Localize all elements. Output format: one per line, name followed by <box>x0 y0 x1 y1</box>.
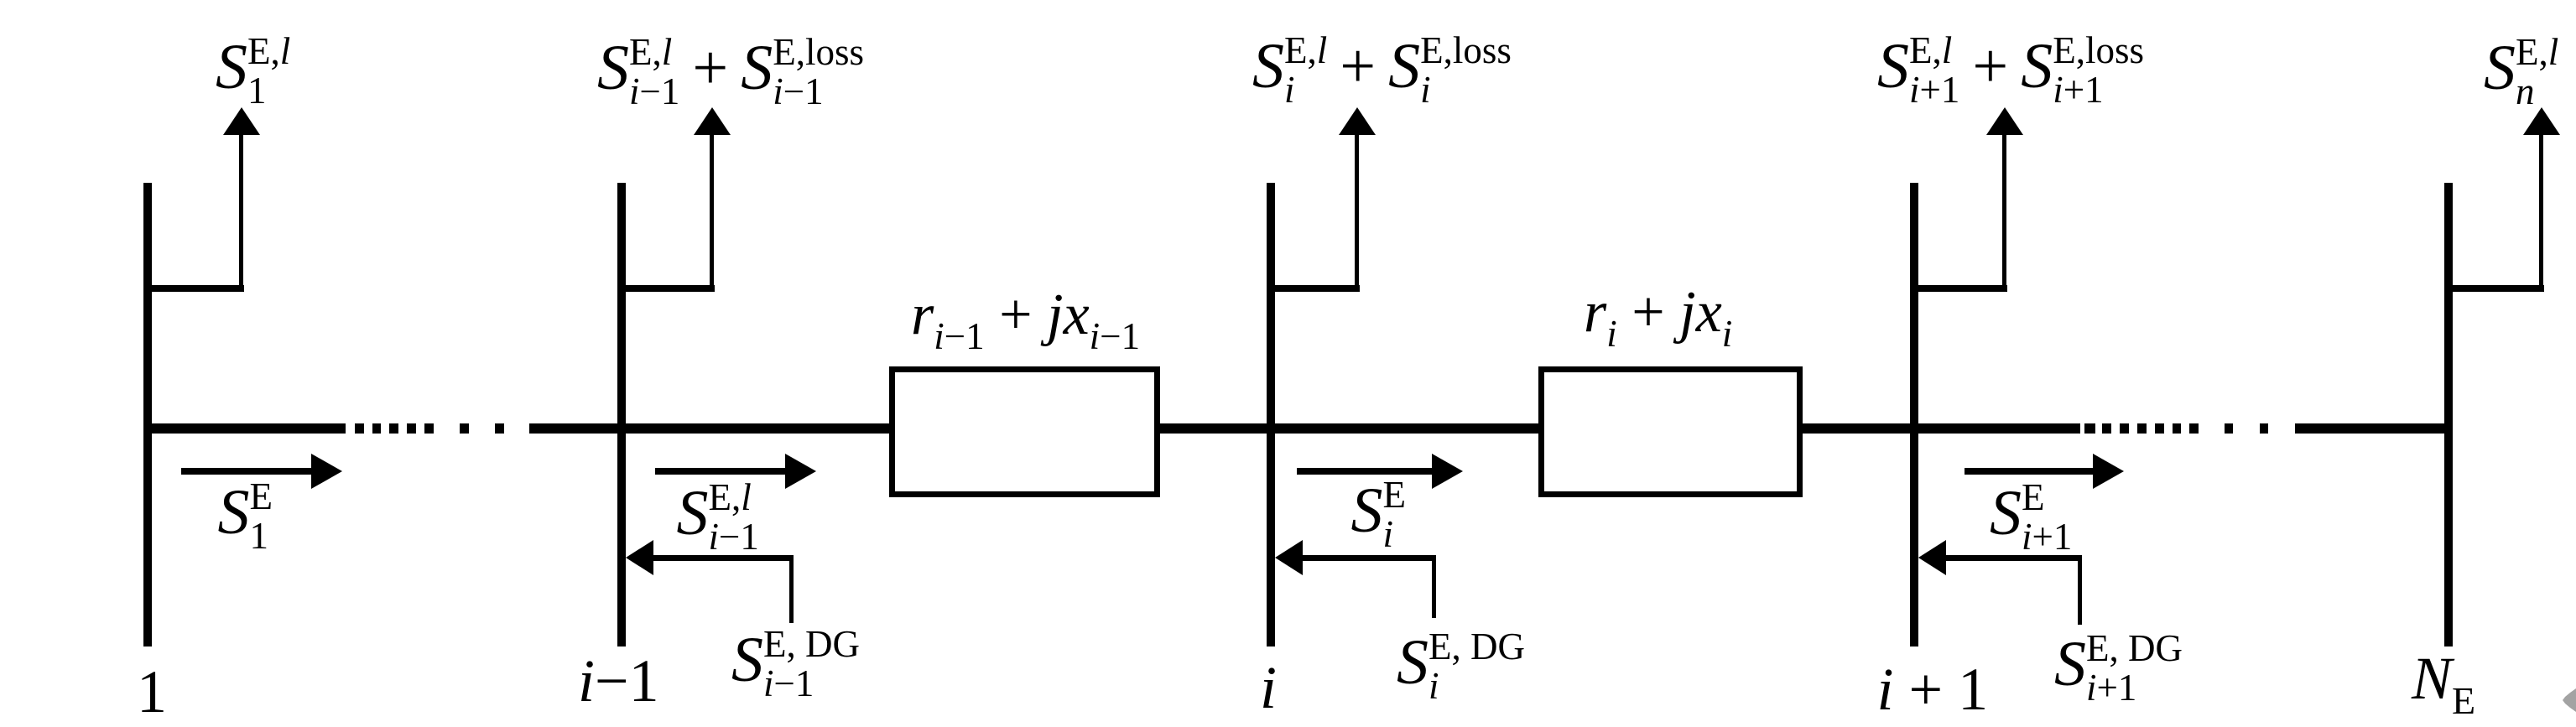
load branch arrow at bus i+1 <box>1914 285 2007 292</box>
bus i+1 (busbar) <box>1910 183 1918 647</box>
node label: bus number i-1 <box>578 649 659 713</box>
DG injection arrow S_{i+1}^{E,DG} into bus i+1 <box>1918 540 1946 575</box>
wire: feeder segment dots-to-box1 (through bus i-1) <box>529 423 889 434</box>
wire: dotted feeder continuation between bus i+1 and bus N_E <box>2084 423 2095 434</box>
DG injection arrow S_i^{E,DG} into bus i <box>1275 540 1303 575</box>
flow arrow S_1^E <box>181 468 311 475</box>
label S_{i-1}^{E,l} (flow from bus i-1) <box>677 478 759 557</box>
label S_{i-1}^{E,DG} (DG at bus i-1) <box>731 625 860 704</box>
impedance box r_{i-1}+jx_{i-1} between bus i-1 and bus i <box>889 366 1160 497</box>
node label: bus number N_E <box>2412 647 2475 710</box>
bus i-1 (busbar) <box>617 183 626 647</box>
wire: feeder segment dots-to-busNE <box>2295 423 2453 434</box>
node label: bus number 1 <box>137 660 167 724</box>
label S_i^{E,l}+S_i^{E,loss} (load at bus i) <box>1252 31 1512 110</box>
flow arrow S_i^E <box>1297 468 1432 475</box>
value label r_{i-1}+jx_{i-1} <box>911 286 1140 345</box>
node label: bus number i+1 <box>1877 657 1989 721</box>
label S_{i-1}^{E,l}+S_{i-1}^{E,loss} (load at bus i-1) <box>597 33 864 112</box>
flow arrow S_{i+1}^E <box>1965 468 2093 475</box>
label S_{i+1}^E (flow from bus i+1) <box>1990 478 2072 557</box>
label S_1^E (flow from bus 1) <box>218 477 273 556</box>
label S_i^{E,DG} (DG at bus i) <box>1397 627 1525 706</box>
node label: bus number i <box>1260 656 1277 719</box>
impedance box r_i+jx_i between bus i and bus i+1 <box>1538 366 1803 497</box>
load branch arrow at bus N_E <box>2449 285 2544 292</box>
load branch arrow at bus i <box>1271 285 1360 292</box>
label S_1^{E,l} (load at bus 1) <box>216 32 290 111</box>
grey cursor artifact at right edge <box>2563 688 2576 712</box>
value label r_i+jx_i <box>1584 283 1732 342</box>
wire: feeder segment box2-to-dots (through bus i+1) <box>1803 423 2080 434</box>
wire: feeder segment bus1-to-dots <box>143 423 346 434</box>
label S_n^{E,l} (load at bus N_E) <box>2484 33 2558 112</box>
label S_{i+1}^{E,l}+S_{i+1}^{E,loss} (load at bus i+1) <box>1877 31 2144 110</box>
bus i (busbar) <box>1267 183 1275 647</box>
load branch arrow at bus 1 <box>148 285 244 292</box>
label S_i^E (flow from bus i) <box>1351 475 1407 554</box>
DG injection arrow S_{i-1}^{E,DG} into bus i-1 <box>626 540 653 575</box>
load branch arrow at bus i-1 <box>622 285 715 292</box>
wire: dotted feeder continuation between bus 1 and bus i-1 <box>355 423 364 434</box>
flow arrow S_{i-1}^{E,l} <box>655 468 785 475</box>
label S_{i+1}^{E,DG} (DG at bus i+1) <box>2054 629 2183 708</box>
wire: feeder segment box1-to-box2 (through bus i) <box>1160 423 1538 434</box>
bus N_E (busbar) <box>2444 183 2453 647</box>
bus 1 (busbar) <box>143 183 152 647</box>
